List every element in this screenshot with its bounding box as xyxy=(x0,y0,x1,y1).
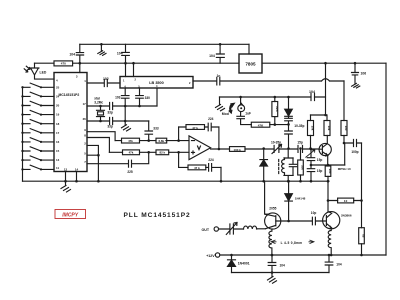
LED D1 xyxy=(30,63,54,79)
svg-text:224: 224 xyxy=(208,158,214,162)
emitter choke L3 of 2N3866 xyxy=(328,228,331,255)
wire emitter node to 100p junction xyxy=(344,143,346,165)
crystal X1 3,2Mc xyxy=(97,106,105,121)
switch S10 xyxy=(23,165,55,169)
svg-text:17: 17 xyxy=(83,102,87,106)
transistor Q1 MPSH10 xyxy=(319,143,331,155)
junction dots lower osc line xyxy=(99,120,102,123)
switch S2 xyxy=(23,92,55,96)
svg-text:104: 104 xyxy=(209,54,215,58)
diode D varicap top xyxy=(285,97,293,116)
resistor R 10k bias upper xyxy=(308,121,314,136)
capacitor C 10p xyxy=(312,217,322,225)
svg-text:100: 100 xyxy=(328,169,332,174)
capacitor C 106 with ground xyxy=(352,63,359,84)
svg-text:104: 104 xyxy=(309,90,315,94)
resistor R 10k tank to ground xyxy=(298,160,304,175)
svg-text:10-35p: 10-35p xyxy=(271,140,281,144)
wire feedback to output node xyxy=(218,127,220,149)
resistor R 68 xyxy=(359,228,365,244)
svg-text:100p: 100p xyxy=(351,150,358,154)
capacitor C 104 bypass with ground xyxy=(268,255,276,277)
resistor RA1 47k xyxy=(122,138,140,143)
switch S7 xyxy=(23,138,55,142)
ground G5 below IC xyxy=(61,181,71,192)
row B loop filter line xyxy=(109,151,189,153)
coil L2 output xyxy=(244,226,257,229)
svg-text:PLL MC145151P2: PLL MC145151P2 xyxy=(124,212,191,219)
wire IC pin3 drop xyxy=(79,63,81,72)
wire 2055 collector to ground rail xyxy=(265,181,266,214)
wire modulation rail y97 xyxy=(220,96,326,98)
resistor RB1 47k xyxy=(123,150,140,155)
capacitor C 10-35p upper xyxy=(285,116,293,124)
arrows for coil note xyxy=(271,240,314,244)
switch bus xyxy=(22,87,24,181)
wire VCO control line xyxy=(245,148,319,150)
svg-text:82 k: 82 k xyxy=(159,151,165,155)
trimmer capacitor output xyxy=(226,223,237,235)
row A loop filter line xyxy=(115,140,189,142)
svg-text:MC145151P2: MC145151P2 xyxy=(59,93,80,97)
wire lower osc line pin26 xyxy=(87,118,149,125)
junction at 470 row / pin3 xyxy=(79,62,82,65)
svg-text:2055: 2055 xyxy=(269,207,276,211)
svg-text:1N4001: 1N4001 xyxy=(238,261,250,265)
wire emitter tap row xyxy=(311,164,345,166)
diode D 1N4148 xyxy=(285,181,293,221)
op-amp internal mark xyxy=(198,146,201,150)
wire OUT line xyxy=(219,228,244,230)
wire minus input feedback riser xyxy=(178,127,180,141)
ground G2 oscillator xyxy=(122,125,131,131)
hop of buffer line over VCC drop xyxy=(322,79,330,81)
capacitor C 104 bypass right xyxy=(325,255,333,273)
svg-text:102: 102 xyxy=(103,77,109,81)
svg-text:100 k: 100 k xyxy=(233,148,241,152)
svg-text:25: 25 xyxy=(56,85,60,89)
svg-text:1n: 1n xyxy=(217,74,221,78)
emitter choke of 2055 xyxy=(269,229,272,255)
transistor Q3 2N3866 xyxy=(323,212,340,229)
wire ground rail end into driver collector line xyxy=(327,181,329,212)
svg-text:18: 18 xyxy=(56,122,60,126)
diode D 1N4001 protection xyxy=(228,255,236,273)
wire coupling drop x361.5 xyxy=(361,143,363,228)
resistor R 100k xyxy=(230,147,246,152)
switch S5 xyxy=(23,120,55,124)
svg-text:10p: 10p xyxy=(311,211,317,215)
capacitor C 15p feedback upper xyxy=(307,149,314,165)
svg-text:15: 15 xyxy=(56,149,60,153)
capacitor C 330 (LB3500 pin5) xyxy=(136,88,144,106)
LED light arrows xyxy=(24,66,30,72)
wire IC pin2/pin5 drop to ground rail xyxy=(87,145,98,181)
svg-text:47 k: 47 k xyxy=(194,166,200,170)
wire bias row y115 xyxy=(311,114,326,116)
svg-text:Mod: Mod xyxy=(222,112,229,116)
svg-text:13: 13 xyxy=(56,158,60,162)
resistor RA2 6,8k xyxy=(156,138,167,143)
svg-text:24: 24 xyxy=(56,95,60,99)
svg-text:10k: 10k xyxy=(327,126,331,131)
switch S8 xyxy=(23,147,55,151)
wire lower return line xyxy=(232,272,330,274)
capacitor C 15p series to MPSH10 base xyxy=(298,145,303,152)
wire +12V rail xyxy=(220,254,386,256)
svg-text:11: 11 xyxy=(56,166,59,170)
op-amp input polarity marks xyxy=(192,141,195,154)
junction dots LB drops xyxy=(124,62,127,65)
svg-text:104: 104 xyxy=(336,263,342,267)
potentiometer level (circle) xyxy=(238,105,245,112)
capacitor C 15p feedback lower xyxy=(307,165,314,181)
svg-text:47k: 47k xyxy=(128,139,133,143)
svg-text:470: 470 xyxy=(61,62,66,66)
svg-text:20: 20 xyxy=(56,104,60,108)
junction row B / C225 branch xyxy=(147,151,150,154)
svg-text:330: 330 xyxy=(145,96,151,100)
svg-text:13: 13 xyxy=(64,168,68,172)
svg-text:10: 10 xyxy=(344,199,348,203)
svg-text:+12V: +12V xyxy=(206,254,215,258)
svg-text:15p: 15p xyxy=(297,140,303,144)
svg-text:16: 16 xyxy=(56,140,60,144)
svg-text:LED: LED xyxy=(40,71,47,75)
capacitor C 102 (IC pin1 to LB3500) xyxy=(87,80,120,87)
capacitor C lower of varicap stack xyxy=(285,124,293,148)
ground G6 xyxy=(268,277,277,284)
svg-text:103: 103 xyxy=(115,96,121,100)
capacitor C 104 (top-left, on vertical to IC pin3) xyxy=(76,44,83,63)
svg-text:224: 224 xyxy=(208,117,214,121)
svg-text:MPSH 10: MPSH 10 xyxy=(338,167,351,171)
capacitor C 1uF xyxy=(237,112,251,125)
capacitor C 104 series in mod rail xyxy=(311,94,315,101)
IC U2 LB3500 xyxy=(120,77,193,89)
svg-text:1N4148: 1N4148 xyxy=(295,197,306,201)
capacitor C 100p coupling xyxy=(344,139,362,146)
switch S3 xyxy=(23,101,55,105)
junction dots on 5V rail xyxy=(324,62,327,65)
svg-text:10k: 10k xyxy=(311,126,315,131)
regulator 7805 xyxy=(239,54,262,73)
svg-text:47K: 47K xyxy=(258,123,264,127)
svg-text:333: 333 xyxy=(153,127,159,131)
svg-text:15p: 15p xyxy=(317,169,323,173)
svg-text:IMCPY: IMCPY xyxy=(62,213,79,219)
wire IC bottom pin stubs xyxy=(66,172,77,182)
svg-text:15p: 15p xyxy=(317,158,323,162)
svg-text:OUT: OUT xyxy=(202,228,210,232)
wire 470 row xyxy=(35,62,240,64)
resistor R 22K xyxy=(272,102,278,117)
svg-text:104: 104 xyxy=(280,264,286,268)
svg-text:100: 100 xyxy=(344,126,348,131)
IC U1 MC145151P2 xyxy=(54,73,87,172)
ground G4 mod input xyxy=(216,97,225,111)
resistor R emitter MPSH10 xyxy=(325,166,331,176)
wire plus input lower network riser xyxy=(178,152,180,167)
wire right supply rail xyxy=(385,63,387,255)
junction dot cap at top rail xyxy=(219,43,222,46)
diode varicap D to ground rail xyxy=(260,149,268,182)
wire op-amp output xyxy=(211,148,230,150)
svg-text:225: 225 xyxy=(127,170,133,174)
wire buffer line from LB3500 xyxy=(193,77,344,85)
wire LB3500 pin 4/5 common to osc line xyxy=(156,88,158,106)
jack symbol Mod xyxy=(229,103,234,113)
svg-text:104: 104 xyxy=(117,52,123,56)
transistor Q2 2055 xyxy=(265,213,281,229)
switch S9 xyxy=(23,156,55,160)
svg-text:10-35p: 10-35p xyxy=(294,124,304,128)
svg-text:L 4-5 0,8mm: L 4-5 0,8mm xyxy=(281,241,303,245)
resistor RB2 82k xyxy=(156,150,169,155)
svg-text:17: 17 xyxy=(56,131,60,135)
wire IC pin8 to row B xyxy=(87,138,109,153)
resistor R 47k feedback xyxy=(186,125,205,130)
svg-text:68: 68 xyxy=(362,234,366,238)
resistor 470 xyxy=(54,61,73,66)
wire bus to ground rail xyxy=(23,180,330,182)
svg-text:47 k: 47 k xyxy=(192,126,198,130)
svg-text:2N3866: 2N3866 xyxy=(341,213,352,217)
junction row A / C333 xyxy=(147,139,150,142)
switch S4 xyxy=(23,110,55,114)
capacitor C 224 lower drop to ground rail xyxy=(220,167,222,181)
wire top supply rail xyxy=(80,43,249,45)
svg-text:26: 26 xyxy=(83,117,87,121)
svg-text:14: 14 xyxy=(75,168,79,172)
capacitor C 225 line from IC pin xyxy=(87,152,149,167)
wire VCC drop x325.5 xyxy=(325,63,327,115)
junction dots osc line xyxy=(124,105,127,108)
svg-text:106: 106 xyxy=(361,72,367,76)
wire LB3500 pin1 drop xyxy=(125,63,127,76)
wire LB3500 pin2 drop xyxy=(133,63,135,76)
svg-text:104: 104 xyxy=(69,53,75,57)
svg-text:7805: 7805 xyxy=(245,62,256,67)
switch S1 xyxy=(23,83,55,87)
wire 2055 base line to 10p xyxy=(276,220,312,222)
wire to 2055 emitter xyxy=(257,228,266,230)
resistor R 10k bias to collector xyxy=(324,121,330,136)
wire 5V output rail right of 7805 xyxy=(262,62,386,64)
tank coil L1 with core and parallel cap xyxy=(284,149,293,182)
resistor R 100 buffer collector load xyxy=(341,121,347,136)
capacitor C 333 xyxy=(145,121,153,141)
junction varicap to VCO line xyxy=(287,147,290,150)
capacitor C 104 (x220 near 7805) xyxy=(216,44,224,63)
wire 2N3866 collector xyxy=(328,211,331,214)
resistor R 10 interstage xyxy=(338,198,354,203)
wire 47K to varicap bias node xyxy=(270,124,289,126)
svg-text:33p: 33p xyxy=(107,110,113,114)
ground G1 top rail xyxy=(98,44,106,55)
capacitor C 103 (LB3500 pin4) xyxy=(121,88,129,106)
capacitor C 104 (x125 decoupling to LB3500 pin1) xyxy=(122,44,130,63)
logo box IMCPY xyxy=(55,210,86,219)
svg-text:1uF: 1uF xyxy=(245,111,251,115)
svg-text:6,8k: 6,8k xyxy=(158,139,164,143)
svg-text:47k: 47k xyxy=(129,151,134,155)
wire 7805 top lead xyxy=(248,44,250,54)
resistor R 47k lower xyxy=(188,165,206,170)
wire oscillator line pin17 xyxy=(87,103,157,110)
svg-text:19: 19 xyxy=(56,113,60,117)
ground G3 xyxy=(352,83,360,88)
wire ground drop from osc line xyxy=(124,106,126,125)
trimmer arrow on 15p feedback cap xyxy=(306,150,315,157)
resistor R 47K mod xyxy=(251,122,269,127)
terminal OUT xyxy=(214,227,218,231)
wire IC pin9 to row A xyxy=(87,132,115,141)
svg-text:10k: 10k xyxy=(301,165,305,170)
svg-text:33p: 33p xyxy=(107,125,113,129)
op-amp U3 xyxy=(189,136,211,160)
trimmer capacitor 10-35p in VCO line xyxy=(272,145,282,154)
terminal +12V xyxy=(215,253,219,257)
switch S6 xyxy=(23,129,55,133)
wire MPSH10 emitter down xyxy=(327,155,329,166)
svg-text:3,2Mc: 3,2Mc xyxy=(94,100,103,104)
svg-text:22K: 22K xyxy=(275,106,279,112)
